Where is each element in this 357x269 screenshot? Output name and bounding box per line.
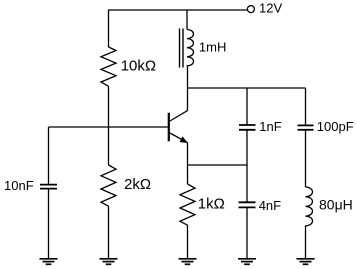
- wire 2k bottom to ground: [108, 206, 110, 258]
- svg-text:10nF: 10nF: [4, 178, 34, 193]
- wire 100pF bottom down to L 80uH: [305, 130, 307, 187]
- transistor Q1 collector lead: [170, 111, 188, 121]
- wire 4nF bottom to ground: [246, 207, 248, 258]
- wire collector vertical up to coil: [187, 66, 189, 111]
- transistor Q1 emitter lead: [170, 133, 188, 143]
- svg-text:1mH: 1mH: [199, 39, 226, 54]
- wire 80uH bottom to ground: [305, 226, 307, 258]
- ground under 1k: [179, 259, 197, 265]
- wire base node horizontal: [49, 126, 168, 128]
- transistor Q1 base bar: [168, 113, 170, 142]
- resistor 1kΩ: [180, 184, 195, 225]
- transistor Q1 emitter arrowhead: [180, 136, 188, 143]
- svg-text:1kΩ: 1kΩ: [198, 196, 225, 213]
- inductor 80uH coil: [306, 187, 313, 226]
- svg-text:2kΩ: 2kΩ: [124, 176, 151, 193]
- capacitor 1nF: [239, 125, 256, 130]
- wire 10nF bottom to ground: [48, 189, 50, 258]
- wire emitter node horizontal: [188, 164, 248, 166]
- capacitor 10nF: [40, 185, 57, 189]
- wire from rail down to L 1mH: [186, 10, 188, 30]
- wire 10k bottom to base node and down to R 2k: [108, 86, 110, 165]
- svg-text:4nF: 4nF: [259, 198, 281, 213]
- wire top supply rail: [108, 9, 247, 11]
- svg-text:12V: 12V: [259, 1, 282, 16]
- wire emitter down to node: [187, 143, 189, 165]
- ground under 2k: [100, 259, 118, 265]
- wire 1nF bottom through emitter node to C 4nF: [246, 130, 248, 203]
- wire emitter node down to R 1k: [187, 165, 189, 184]
- wire collector node down to C 100pF: [305, 88, 307, 125]
- resistor 2kΩ: [101, 165, 116, 206]
- wire 1k bottom to ground: [187, 225, 189, 258]
- capacitor 4nF: [239, 202, 256, 207]
- svg-text:100pF: 100pF: [317, 119, 354, 134]
- ground under 10nF: [40, 259, 58, 265]
- inductor 1mH core lines: [180, 29, 184, 68]
- ground under 4nF: [238, 259, 256, 265]
- wire collector node horizontal to right: [188, 87, 306, 89]
- svg-text:1nF: 1nF: [259, 119, 281, 134]
- wire collector node down to C 1nF: [246, 88, 248, 125]
- wire left branch down to C 10nF: [48, 127, 50, 185]
- svg-text:10kΩ: 10kΩ: [121, 58, 156, 75]
- resistor 10kΩ: [101, 47, 116, 86]
- wire from rail down to R 10k: [108, 10, 110, 47]
- svg-text:80μH: 80μH: [319, 196, 353, 212]
- capacitor 100pF: [298, 125, 314, 129]
- ground under 80uH: [297, 259, 315, 265]
- inductor 1mH coil: [187, 30, 194, 67]
- node 12V terminal circle: [247, 6, 254, 13]
